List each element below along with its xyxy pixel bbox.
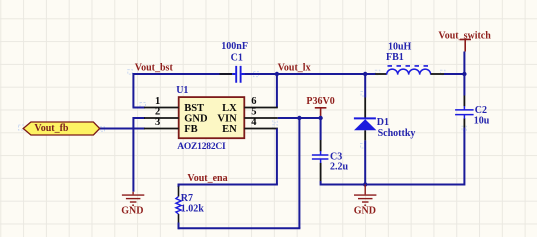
pin number 6 bbox=[251, 96, 256, 107]
label C2 bbox=[475, 105, 487, 116]
svg-text:Vout_bst: Vout_bst bbox=[135, 62, 174, 73]
svg-text:6: 6 bbox=[251, 96, 256, 107]
capacitor C3 plates bbox=[312, 151, 329, 163]
resistor R7 bottom lead blue bbox=[178, 223, 180, 230]
svg-text:P36V0: P36V0 bbox=[306, 96, 334, 107]
hotspot marker EN lower bbox=[273, 125, 278, 130]
diode D1 cathode bar bbox=[354, 117, 376, 119]
diode D1 triangle bbox=[354, 119, 376, 130]
svg-text:GND: GND bbox=[354, 206, 376, 217]
pin name LX bbox=[222, 103, 237, 114]
capacitor C3 lower wire bbox=[320, 181, 322, 186]
pin number 1 bbox=[155, 96, 160, 107]
power port Vout_switch bar bbox=[460, 39, 471, 51]
wire pin5 to P36V0 bbox=[278, 117, 321, 119]
svg-text:1: 1 bbox=[155, 96, 160, 107]
net label Vout_lx bbox=[278, 62, 311, 73]
svg-text:Vout_fb: Vout_fb bbox=[34, 123, 69, 134]
svg-text:2.2u: 2.2u bbox=[330, 162, 349, 173]
ground GND left text bbox=[121, 206, 143, 217]
label R7 bbox=[181, 193, 193, 204]
svg-text:AOZ1282CI: AOZ1282CI bbox=[177, 142, 226, 152]
svg-text:EN: EN bbox=[222, 124, 237, 135]
svg-text:5: 5 bbox=[251, 107, 256, 118]
capacitor C3 upper wire bbox=[320, 117, 322, 140]
capacitor C3 leads bbox=[320, 140, 322, 181]
pin name VIN bbox=[217, 113, 237, 124]
svg-text:VIN: VIN bbox=[217, 113, 237, 124]
inductor FB1 left lead bbox=[375, 73, 386, 75]
wire bottom horizontal bbox=[179, 227, 301, 229]
svg-text:LX: LX bbox=[222, 103, 237, 114]
pin name BST bbox=[184, 103, 204, 114]
capacitor C2 leads black bbox=[463, 96, 465, 128]
svg-text:Vout_ena: Vout_ena bbox=[187, 173, 227, 184]
wire VIN branch down bbox=[298, 118, 300, 228]
wire Vout_bst vertical to pin 1 bbox=[132, 73, 134, 108]
svg-text:U1: U1 bbox=[176, 85, 188, 96]
ground GND left bbox=[122, 192, 144, 205]
inductor FB1 right lead bbox=[431, 73, 444, 75]
wire pin1 stub bbox=[133, 107, 146, 109]
wire Vout_bst top horizontal bbox=[133, 73, 233, 75]
hotspot marker port tip bbox=[19, 125, 24, 130]
label C1 bbox=[231, 53, 243, 64]
wire Vout_lx horizontal bbox=[245, 73, 376, 75]
svg-text:D1: D1 bbox=[377, 117, 389, 128]
pin number 5 bbox=[251, 107, 256, 118]
port Vout_fb text bbox=[34, 123, 69, 134]
diode D1 lower lead bbox=[364, 140, 366, 184]
resistor R7 top lead blue bbox=[178, 184, 180, 188]
label D1 bbox=[377, 117, 389, 128]
wire EN vertical to Vout_ena bbox=[276, 129, 278, 185]
label Schottky bbox=[378, 128, 416, 139]
pin name GND bbox=[184, 113, 208, 124]
pin number 4 bbox=[251, 117, 257, 128]
IC U1 body bbox=[179, 97, 245, 138]
pin 6 LX bbox=[244, 107, 277, 109]
svg-text:10u: 10u bbox=[474, 116, 490, 127]
label 100nF bbox=[221, 41, 248, 52]
pin name EN bbox=[222, 124, 237, 135]
capacitor C2 plates bbox=[455, 106, 474, 119]
svg-text:GND: GND bbox=[121, 206, 143, 217]
svg-text:1.02k: 1.02k bbox=[181, 203, 205, 214]
label FB1 bbox=[386, 52, 404, 63]
hotspot marker FB1 right bbox=[441, 70, 446, 75]
power port P36V0 bar bbox=[315, 108, 327, 118]
pin name FB bbox=[184, 124, 197, 135]
pin 5 VIN bbox=[244, 117, 277, 119]
wire pin2 to GND bbox=[133, 117, 145, 192]
pin number 3 bbox=[155, 117, 160, 128]
hotspot marker Vout_bst corner bbox=[128, 70, 133, 75]
junction P36V0 pin5 bbox=[318, 116, 322, 120]
junction D1 bottom bbox=[363, 182, 367, 186]
net label Vout_ena bbox=[187, 173, 227, 184]
svg-text:Schottky: Schottky bbox=[378, 128, 416, 139]
svg-text:10uH: 10uH bbox=[388, 42, 412, 53]
wire FB1 to switch node bbox=[444, 73, 464, 75]
pin 4 EN bbox=[244, 128, 277, 130]
svg-text:Vout_lx: Vout_lx bbox=[278, 62, 311, 73]
wire Vout_fb port to pin3 bbox=[100, 128, 145, 130]
capacitor C2 upper wire bbox=[463, 73, 465, 96]
hotspot marker C1 right bbox=[254, 72, 259, 77]
diode D1 upper lead bbox=[364, 73, 366, 98]
diode D1 leads black bbox=[364, 98, 366, 141]
ground GND right bbox=[354, 185, 376, 206]
wire pin6 vertical bbox=[276, 73, 278, 108]
hotspot marker D1 bottom bbox=[361, 144, 366, 149]
pin number 2 bbox=[155, 107, 160, 118]
label U1 bbox=[176, 85, 188, 96]
svg-text:100nF: 100nF bbox=[221, 41, 248, 52]
wire Vout_ena horizontal bbox=[178, 184, 278, 186]
svg-text:2: 2 bbox=[155, 107, 160, 118]
svg-text:C3: C3 bbox=[330, 151, 342, 162]
hotspot marker EN upper bbox=[273, 118, 278, 123]
hotspot marker FB1 left bbox=[375, 70, 380, 75]
capacitor C2 lower wire bbox=[463, 128, 465, 186]
net label Vout_bst bbox=[135, 62, 174, 73]
svg-text:C1: C1 bbox=[231, 53, 243, 64]
junction pin6 Vout_lx bbox=[275, 72, 279, 76]
power port Vout_switch label bbox=[438, 30, 491, 41]
svg-text:GND: GND bbox=[184, 113, 208, 124]
label 10uH bbox=[388, 42, 412, 53]
svg-text:R7: R7 bbox=[181, 193, 193, 204]
label 1.02k bbox=[181, 203, 205, 214]
resistor R7 leads black bbox=[178, 187, 180, 223]
capacitor C1 plates bbox=[232, 66, 245, 83]
label C3 bbox=[330, 151, 342, 162]
hotspot marker pin1 bbox=[140, 103, 146, 109]
label AOZ1282CI bbox=[177, 142, 226, 152]
hotspot marker C2 bottom bbox=[462, 126, 467, 131]
svg-text:FB1: FB1 bbox=[386, 52, 404, 63]
svg-text:C2: C2 bbox=[475, 105, 487, 116]
pin 1 BST bbox=[144, 107, 179, 109]
inductor FB1 core dashes bbox=[388, 65, 429, 67]
junction D1 top bbox=[363, 72, 367, 76]
svg-text:3: 3 bbox=[155, 117, 160, 128]
svg-text:Vout_switch: Vout_switch bbox=[438, 30, 491, 41]
wire Vout_switch stem bbox=[463, 52, 465, 75]
junction VIN branch bbox=[297, 116, 301, 120]
resistor R7 zigzag bbox=[176, 197, 181, 215]
junction switch node bbox=[462, 72, 466, 76]
ground GND right text bbox=[354, 206, 376, 217]
wire GND net horizontal bbox=[321, 184, 465, 186]
inductor FB1 humps bbox=[387, 69, 431, 74]
port Vout_fb bbox=[23, 122, 100, 135]
svg-text:FB: FB bbox=[184, 124, 197, 135]
pin 3 FB bbox=[144, 128, 179, 130]
svg-text:BST: BST bbox=[184, 103, 204, 114]
label 10u bbox=[474, 116, 490, 127]
hotspot marker D1 top bbox=[361, 92, 366, 97]
hotspot marker port right bbox=[100, 127, 105, 132]
pin 2 GND bbox=[144, 117, 179, 119]
svg-text:4: 4 bbox=[251, 117, 257, 128]
label 2.2u bbox=[330, 162, 349, 173]
power port P36V0 label bbox=[306, 96, 334, 107]
capacitor C1 leads bbox=[220, 73, 255, 75]
